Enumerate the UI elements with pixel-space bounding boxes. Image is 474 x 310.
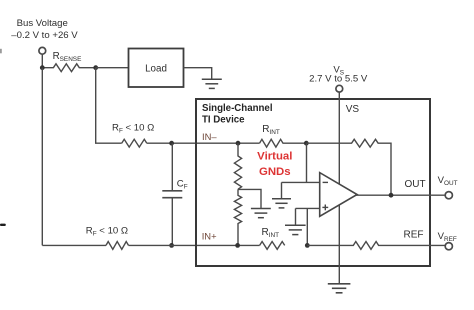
svg-text:RF < 10 Ω: RF < 10 Ω bbox=[86, 225, 128, 237]
junction: RSENSE left node bbox=[40, 65, 45, 70]
resistor RF (bottom filter) bbox=[106, 242, 129, 250]
wire: op-amp output to VOUT bbox=[356, 194, 445, 196]
junction: divider top node bbox=[236, 141, 241, 146]
svg-text:2.7 V to 5.5 V: 2.7 V to 5.5 V bbox=[309, 73, 368, 84]
svg-text:VS: VS bbox=[346, 104, 360, 115]
wire: load box to ground bbox=[184, 68, 212, 79]
ground: virtual GND 1 (divider tap) bbox=[251, 209, 271, 218]
svg-text:IN–: IN– bbox=[202, 131, 217, 142]
svg-text:GNDs: GNDs bbox=[259, 166, 291, 178]
junction: CF top node bbox=[169, 141, 174, 146]
page artifact: left-edge dash bbox=[0, 224, 6, 226]
load box bbox=[129, 49, 184, 88]
wire+resistor: feedback from minus node to output bbox=[306, 139, 391, 195]
wire: IN- line from RF into device to RINT bbox=[147, 142, 260, 144]
terminal: VREF bbox=[445, 243, 452, 250]
junction: divider bottom node bbox=[235, 243, 240, 248]
svg-text:TI Device: TI Device bbox=[202, 115, 245, 126]
svg-text:IN+: IN+ bbox=[202, 231, 217, 242]
terminal: VS supply bbox=[336, 85, 343, 92]
svg-text:OUT: OUT bbox=[405, 179, 426, 190]
svg-text:Virtual: Virtual bbox=[257, 151, 292, 163]
resistor RSENSE bbox=[42, 64, 95, 72]
wire: virtual ground 2 stem bbox=[281, 182, 283, 198]
resistor RINT (top) bbox=[260, 139, 307, 147]
junction: CF bottom node bbox=[169, 243, 174, 248]
wire: plus node up to op-amp non-inverting input bbox=[296, 208, 320, 245]
resistor: divider lower (internal) bbox=[234, 189, 241, 245]
wire: virtual ground 3 stem bbox=[295, 208, 297, 225]
ground: virtual GND 2 (inverting input) bbox=[272, 199, 291, 208]
terminal: bus voltage input bbox=[39, 47, 46, 54]
junction: RSENSE right node bbox=[93, 65, 98, 70]
svg-text:Bus Voltage: Bus Voltage bbox=[17, 18, 68, 29]
op-amp U1 bbox=[320, 173, 357, 217]
wire: minus node down to op-amp inverting input bbox=[282, 143, 320, 182]
annotation: Virtual GNDs (red) bbox=[257, 151, 292, 179]
device box: Single-Channel TI Device bbox=[196, 99, 430, 266]
resistor RF (top filter) bbox=[122, 139, 147, 147]
junction: output feedback node bbox=[389, 193, 394, 198]
wire: bus terminal down to RSENSE node bbox=[41, 54, 43, 67]
ground: VS rail bottom bbox=[328, 284, 351, 293]
ground: load bbox=[202, 79, 222, 88]
ground: virtual GND 3 (non-inverting input) bbox=[285, 225, 306, 234]
svg-text:REF: REF bbox=[404, 230, 424, 241]
junction: minus node bbox=[304, 141, 309, 146]
wire: IN+ line from RF into device bbox=[129, 244, 260, 246]
wire: IN+ line, left corner to RF bottom bbox=[42, 244, 106, 246]
page artifact: left-edge sliver bbox=[0, 49, 2, 54]
svg-text:Single-Channel: Single-Channel bbox=[202, 103, 273, 114]
wire: RSENSE right node down to RF top bbox=[96, 68, 122, 144]
capacitor CF bbox=[162, 143, 182, 245]
wire: divider tap to virtual ground 1 bbox=[238, 189, 261, 208]
resistor RINT (bottom) bbox=[260, 242, 285, 250]
svg-text:–0.2 V to +26 V: –0.2 V to +26 V bbox=[11, 30, 78, 41]
wire: RSENSE node to load box bbox=[96, 67, 129, 69]
resistor: divider upper (internal) bbox=[234, 143, 241, 189]
terminal: VOUT bbox=[445, 192, 452, 199]
svg-text:Load: Load bbox=[145, 63, 167, 74]
wire: left bus rail down to IN+ line bbox=[41, 68, 43, 246]
wire+resistor: plus node to REF/VREF bbox=[307, 242, 445, 250]
wire: VS rail down to ground bbox=[338, 92, 340, 283]
junction: plus node bbox=[305, 243, 310, 248]
svg-text:RF < 10 Ω: RF < 10 Ω bbox=[112, 123, 154, 135]
